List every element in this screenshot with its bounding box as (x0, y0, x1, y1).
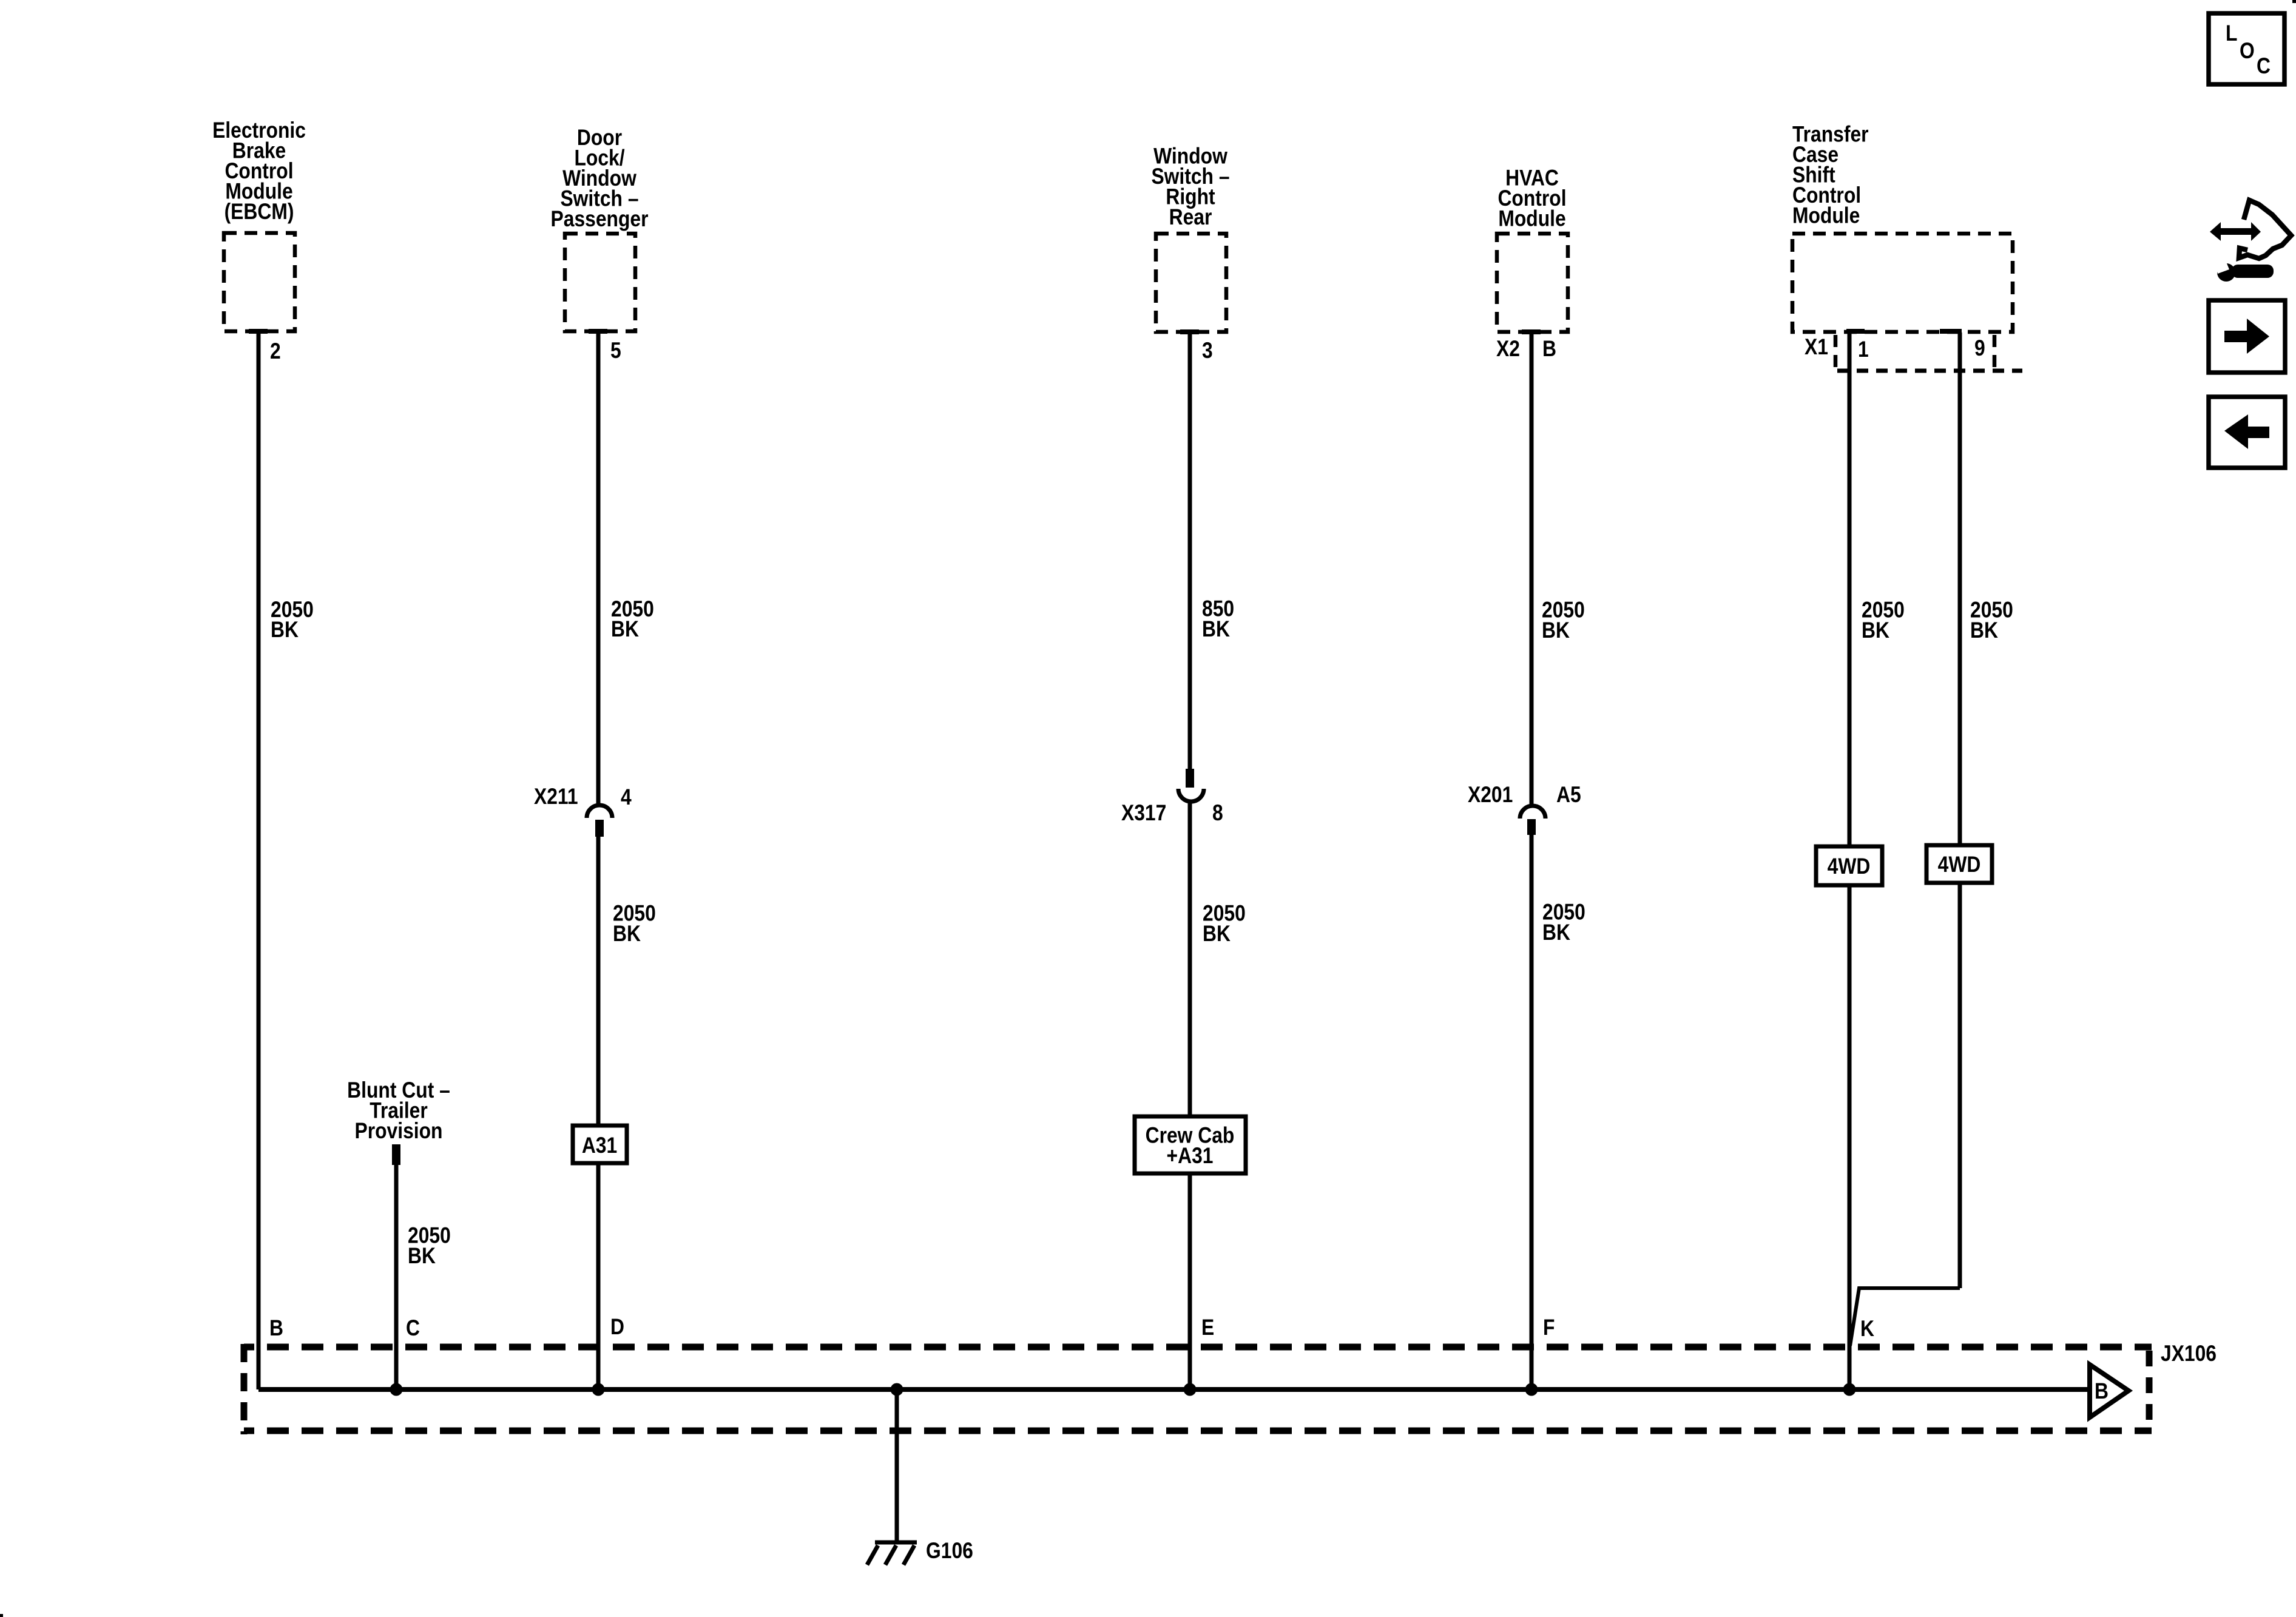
svg-text:1: 1 (1858, 337, 1869, 362)
svg-text:D: D (610, 1315, 624, 1340)
pin tick U1 pin 2 (249, 329, 268, 334)
wire label 2050 BK (HVAC upper) (1542, 598, 1585, 643)
svg-text:L: L (2226, 21, 2237, 46)
svg-text:BK: BK (271, 618, 299, 643)
junction dot E (1184, 1383, 1197, 1396)
module U4 label HVAC Control Module (1497, 166, 1566, 231)
legend diagnostic icon (wrench) (2213, 256, 2274, 282)
svg-text:BK: BK (1202, 617, 1230, 642)
svg-text:4: 4 (621, 785, 632, 810)
svg-text:BK: BK (1970, 618, 1998, 643)
svg-text:+A31: +A31 (1167, 1144, 1214, 1169)
legend forward arrow box (2209, 300, 2285, 373)
svg-text:Passenger: Passenger (551, 207, 649, 232)
svg-text:BK: BK (1203, 922, 1231, 947)
connector X211 pin 4 (587, 805, 612, 837)
wire EBCM pin 2 to bus (2050 BK) (257, 333, 261, 1389)
svg-text:B: B (269, 1316, 283, 1341)
svg-text:O: O (2240, 39, 2255, 64)
svg-text:B: B (2095, 1379, 2109, 1404)
junction dot D (592, 1383, 605, 1396)
wire jog pin 9 to pin 1 wire (1850, 1288, 1960, 1346)
svg-text:Provision: Provision (355, 1119, 443, 1144)
svg-text:BK: BK (408, 1244, 436, 1269)
svg-text:Rear: Rear (1169, 205, 1212, 230)
svg-text:BK: BK (1862, 618, 1889, 643)
svg-text:5: 5 (610, 339, 621, 363)
svg-text:8: 8 (1212, 801, 1223, 826)
wire Door Lock pin 5 to X211 (2050 BK) (596, 333, 601, 804)
option box 4WD (left) (1816, 846, 1882, 885)
option box 4WD (right) (1926, 845, 1992, 883)
svg-text:E: E (1201, 1315, 1214, 1340)
pin tick U5 pin 9 (1940, 329, 1962, 334)
legend forward arrow (2224, 319, 2269, 354)
legend diagnostic icon (outline shape) (2239, 200, 2291, 258)
connector X317 pin 8 (1178, 769, 1204, 802)
svg-text:Module: Module (1792, 203, 1860, 228)
blunt cut label Blunt Cut - Trailer Provision (347, 1078, 450, 1144)
module U3 label Window Switch - Right Rear (1151, 144, 1229, 229)
module U5 box (dashed) (1792, 234, 2013, 332)
module U2 label Door Lock/Window Switch - Passenger (551, 126, 649, 232)
svg-text:X2: X2 (1496, 337, 1520, 362)
svg-text:A31: A31 (582, 1133, 617, 1158)
svg-text:X201: X201 (1468, 783, 1513, 808)
option box Crew Cab +A31 text (1146, 1123, 1235, 1168)
wire X211 to bus (2050 BK) (596, 837, 601, 1389)
svg-text:9: 9 (1974, 336, 1985, 361)
svg-text:Module: Module (1498, 206, 1565, 231)
wire label 850 BK (window switch upper) (1202, 596, 1234, 641)
bus solid wire (258, 1387, 2089, 1392)
wire Transfer Case pin 9 (2050 BK) (1958, 333, 1962, 1288)
page corner mark bottom left (0, 1614, 3, 1617)
module U2 box (dashed) (565, 234, 635, 331)
svg-text:C: C (406, 1316, 420, 1341)
module U5 label Transfer Case Shift Control Module (1792, 122, 1869, 228)
wire label 2050 BK (EBCM) (271, 598, 314, 643)
svg-text:G106: G106 (926, 1539, 973, 1564)
svg-text:3: 3 (1202, 339, 1213, 363)
wire blunt cut to bus (2050 BK) (394, 1165, 399, 1389)
legend LOC box (2209, 13, 2284, 84)
wire X201 to bus (2050 BK) (1530, 835, 1534, 1389)
svg-text:B: B (1542, 337, 1556, 362)
splice pack A31 box (573, 1126, 627, 1163)
svg-text:K: K (1860, 1317, 1874, 1342)
svg-text:JX106: JX106 (2161, 1342, 2217, 1366)
svg-text:BK: BK (1542, 618, 1570, 643)
wire label 2050 BK (window switch lower) (1203, 901, 1246, 946)
ground G106 symbol (867, 1542, 917, 1565)
wire bus to ground G106 (895, 1389, 899, 1544)
splice bus JX106 dashed box (244, 1344, 2152, 1434)
svg-text:X211: X211 (534, 785, 578, 809)
wire Window Switch pin 3 to X317 (850 BK) (1188, 333, 1192, 769)
svg-text:C: C (2257, 54, 2271, 79)
module U1 label Electronic Brake Control Module (EBCM) (212, 118, 306, 224)
svg-text:BK: BK (613, 922, 641, 947)
wire Transfer Case pin 1 to bus (2050 BK) (1848, 333, 1852, 1389)
blunt cut terminal stub (392, 1144, 400, 1165)
page corner mark top right (2292, 0, 2296, 3)
junction dot K (1843, 1383, 1856, 1396)
svg-text:4WD: 4WD (1828, 854, 1871, 879)
wire HVAC pin B to X201 (2050 BK) (1530, 333, 1534, 805)
svg-text:F: F (1543, 1315, 1555, 1340)
svg-text:(EBCM): (EBCM) (225, 200, 294, 224)
pin tick U2 pin 5 (589, 329, 607, 334)
wire label 2050 BK (blunt cut) (408, 1223, 451, 1268)
junction dot F (1525, 1383, 1538, 1396)
svg-text:BK: BK (1542, 920, 1570, 945)
wire label 2050 BK (door lock lower) (613, 901, 656, 946)
legend backward arrow box (2209, 397, 2285, 468)
pin tick U4 pin B (1522, 329, 1541, 334)
wire label 2050 BK (door lock upper) (611, 597, 654, 642)
wire label 2050 BK (TC pin 9) (1970, 598, 2013, 643)
junction dot G106 tap (891, 1383, 903, 1396)
wire label 2050 BK (HVAC lower) (1542, 900, 1585, 945)
svg-text:4WD: 4WD (1938, 852, 1981, 877)
module U3 box (dashed) (1156, 234, 1226, 332)
connector X1 sub-box (dashed) (1835, 335, 2022, 371)
wire label 2050 BK (TC pin 1) (1862, 598, 1905, 643)
legend diagnostic icon (double arrow) (2210, 222, 2261, 241)
svg-text:X1: X1 (1805, 335, 1828, 360)
svg-text:BK: BK (611, 617, 639, 642)
legend backward arrow (2224, 414, 2269, 449)
bus outgoing arrow B (2090, 1365, 2129, 1417)
svg-text:2: 2 (270, 339, 281, 364)
pin tick U5 pin 1 (1846, 329, 1865, 334)
junction dot C (390, 1383, 403, 1396)
pin tick U3 pin 3 (1180, 329, 1199, 334)
module U1 box (EBCM, dashed) (224, 233, 295, 331)
svg-text:X317: X317 (1121, 801, 1166, 826)
svg-text:A5: A5 (1556, 783, 1581, 808)
legend LOC letters (2226, 21, 2271, 79)
wire X317 to bus (2050 BK) (1188, 803, 1192, 1389)
option box Crew Cab +A31 (1135, 1116, 1246, 1173)
module U4 box (dashed) (1497, 234, 1568, 332)
connector X201 pin A5 (1520, 806, 1545, 835)
